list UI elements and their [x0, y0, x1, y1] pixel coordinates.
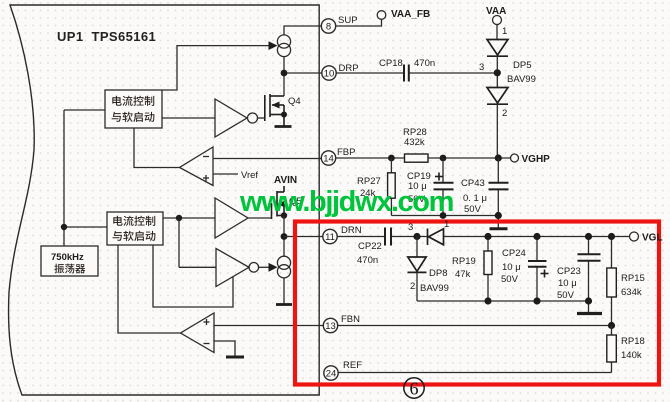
wire DRP node down to Q4 drain	[283, 73, 285, 96]
plus input mark cmp2	[204, 321, 210, 323]
svg-text:CP18: CP18	[379, 58, 403, 69]
svg-text:DP5: DP5	[513, 60, 531, 71]
wire bus to box2	[64, 226, 107, 228]
wire I2 bottom to ground	[283, 278, 285, 304]
svg-text:SUP: SUP	[338, 15, 358, 26]
label 电流控制 (lower)	[113, 216, 122, 226]
svg-text:0. 1 μ: 0. 1 μ	[463, 193, 487, 204]
resistor RP27	[388, 173, 396, 198]
node junction DRP internal	[281, 70, 288, 77]
error amp U_ea1	[180, 147, 214, 186]
svg-text:47k: 47k	[455, 269, 471, 280]
label 电流控制 (upper)	[112, 96, 121, 106]
wire FBN rail	[338, 325, 612, 327]
node junction RP28/CP19	[440, 155, 447, 162]
wire FBP bottom rail	[391, 215, 498, 217]
svg-text:470n: 470n	[414, 58, 435, 69]
svg-text:REF: REF	[343, 360, 362, 371]
svg-text:AVIN: AVIN	[274, 175, 297, 186]
svg-text:DRN: DRN	[341, 225, 362, 236]
ground at cmp2 minus	[226, 356, 244, 359]
wire RP19 top	[487, 237, 489, 252]
svg-text:10 μ: 10 μ	[558, 278, 577, 289]
svg-text:CP24: CP24	[502, 248, 526, 259]
ground at Q4 source	[275, 125, 292, 128]
wire CP24 top	[536, 237, 538, 262]
comparator U_cmp2	[181, 313, 215, 353]
svg-text:10: 10	[324, 69, 335, 80]
circled 6 marker	[404, 378, 424, 399]
plus input mark ea1	[203, 177, 209, 179]
svg-text:432k: 432k	[404, 137, 425, 148]
svg-text:VGHP: VGHP	[522, 154, 551, 165]
wire DRN bottom rail	[417, 300, 589, 302]
svg-text:Q4: Q4	[288, 96, 301, 107]
svg-text:CP22: CP22	[358, 241, 382, 252]
wire ea1 plus to Vref	[213, 173, 238, 175]
svg-text:CP43: CP43	[461, 178, 485, 189]
node junction RP15 top	[608, 233, 615, 240]
wire SUP to VAA_FB	[336, 19, 382, 26]
wire ground stub CP23	[588, 301, 590, 312]
node junction FBN/RP15/RP18	[608, 322, 615, 329]
wire CP43 top	[497, 158, 499, 182]
node junction CP23 bottom	[585, 297, 592, 304]
svg-text:8: 8	[326, 22, 331, 33]
node junction VGHP	[495, 154, 502, 161]
node junction CP19 bottom	[440, 212, 447, 219]
wire box1 to inverter1	[162, 117, 215, 119]
wire vertical bus to oscillator	[63, 110, 65, 246]
wire VAA to DP5	[496, 25, 498, 40]
svg-text:750kHz: 750kHz	[51, 252, 84, 263]
svg-text:14: 14	[323, 154, 334, 165]
wire I2 top to DRN node	[283, 237, 285, 257]
svg-text:6: 6	[410, 379, 419, 399]
resistor RP28	[405, 154, 429, 162]
wire CP43 bottom	[497, 190, 499, 216]
capacitor CP23	[578, 254, 601, 260]
pin 24 REF	[324, 366, 338, 380]
minus input mark cmp2	[204, 343, 210, 345]
svg-text:Vref: Vref	[241, 170, 258, 181]
node junction CP23 top	[585, 233, 592, 240]
block 750kHz 振荡器 oscillator	[41, 246, 98, 276]
wire inverter2 out to current source I2	[259, 266, 269, 268]
pin 14 FBP	[321, 151, 335, 165]
pin 8 SUP	[321, 19, 335, 33]
wire inverter1 out to Q4 gate	[258, 117, 265, 119]
svg-text:1: 1	[502, 26, 507, 37]
wire CP19 bottom	[442, 190, 444, 216]
svg-text:BAV99: BAV99	[420, 283, 449, 294]
svg-text:CP23: CP23	[557, 266, 581, 277]
wire DP5b to VGHP node	[496, 104, 498, 158]
node VGL terminal	[630, 232, 639, 241]
node junction DRN internal	[281, 233, 288, 240]
wire I1 top to pin 8	[284, 26, 322, 35]
inverter U_inv1	[215, 99, 247, 137]
svg-text:13: 13	[325, 321, 336, 332]
node Q4 source junction	[281, 112, 287, 118]
arrowhead into current source I2	[269, 263, 278, 272]
ground below CP43	[490, 227, 508, 230]
node junction CP43 bottom	[495, 212, 502, 219]
node VGHP terminal	[511, 154, 519, 162]
diode DP5b	[487, 88, 508, 105]
svg-text:RP18: RP18	[621, 336, 645, 347]
diode DP8a horizontal	[428, 229, 444, 246]
wire RP18 bottom	[611, 362, 613, 373]
svg-text:RP15: RP15	[621, 273, 645, 284]
node junction RP19 bottom	[484, 297, 491, 304]
svg-text:VGL: VGL	[642, 233, 663, 244]
current source I2	[277, 256, 290, 269]
node Q5 source junction	[281, 212, 287, 218]
capacitor CP18	[404, 65, 409, 82]
wire CP18 to DP5 node	[409, 72, 497, 74]
minus input mark ea1	[203, 156, 209, 158]
wire CP19 top	[442, 158, 444, 182]
wire DRN to CP22	[337, 236, 385, 238]
svg-text:50V: 50V	[557, 290, 575, 301]
wire CP23 bottom	[588, 261, 590, 301]
wire Q5 source to DRN node	[283, 216, 285, 237]
wire RP15 top	[611, 237, 613, 269]
plus mark CP19	[435, 173, 443, 181]
svg-text:634k: 634k	[621, 287, 642, 298]
current source I1	[277, 35, 290, 48]
node junction CP24 bottom	[533, 297, 540, 304]
node junction bus/box2	[61, 224, 67, 230]
wire I1 bottom to DRP node	[283, 57, 285, 74]
plus mark CP24	[541, 270, 549, 278]
wire CP24 bottom	[536, 267, 538, 301]
wire DRP to CP18	[336, 72, 404, 74]
capacitor CP24	[528, 261, 547, 267]
inverter U_inv2	[216, 249, 249, 287]
capacitor CP43	[489, 183, 509, 190]
svg-text:470n: 470n	[357, 255, 378, 266]
wire DRN node to pin 11	[284, 236, 323, 238]
ground below DRN rail	[577, 312, 602, 315]
wire DP8b top	[416, 237, 418, 258]
label 与软启动 (upper)	[112, 112, 121, 122]
svg-text:10 μ: 10 μ	[502, 262, 521, 273]
wire REF rail	[338, 372, 611, 374]
svg-text:FBP: FBP	[337, 147, 355, 158]
svg-text:UP1 TPS65161: UP1 TPS65161	[57, 29, 156, 44]
wire CP22 to node 3	[391, 236, 427, 238]
svg-text:140k: 140k	[621, 350, 642, 361]
red highlight box	[295, 222, 659, 385]
node junction DP8 pin3	[413, 233, 420, 240]
node VAA_FB terminal	[377, 11, 386, 20]
pin 10 DRP	[322, 66, 336, 80]
svg-text:www.bjjdwx.com: www.bjjdwx.com	[239, 186, 453, 218]
svg-text:2: 2	[410, 281, 415, 292]
wire RP18 top	[611, 326, 613, 336]
svg-text:24: 24	[326, 369, 337, 380]
svg-text:DP8: DP8	[429, 268, 447, 279]
transistor Q4	[264, 95, 266, 121]
svg-text:3: 3	[479, 62, 484, 73]
wire inverter2 input vertical	[178, 218, 180, 267]
svg-text:BAV99: BAV99	[507, 74, 536, 85]
svg-text:2: 2	[502, 108, 507, 119]
label 与软启动 (lower)	[113, 231, 122, 241]
svg-text:50V: 50V	[501, 274, 519, 285]
pin 13 FBN	[323, 318, 337, 332]
svg-text:3: 3	[408, 222, 413, 233]
node junction FBP/RP27	[388, 155, 395, 162]
transistor Q5	[283, 186, 285, 192]
label 振荡器	[54, 264, 64, 274]
wire ea1 minus to pin 14	[213, 158, 322, 160]
capacitor CP19	[434, 183, 454, 190]
diode DP8b vertical	[408, 257, 427, 272]
arrowhead into current source I1	[269, 41, 278, 50]
capacitor CP22	[385, 228, 391, 246]
arrow of Q4 body diode	[272, 102, 280, 109]
wire buffer out to Q5 gate	[248, 217, 272, 219]
ground below I2	[276, 303, 292, 306]
wire box2 to buffer	[163, 217, 215, 219]
svg-text:RP19: RP19	[452, 256, 476, 267]
buffer U_buf	[215, 198, 248, 238]
wire ground stub CP43	[497, 216, 499, 229]
wire RP15 bottom	[611, 297, 613, 326]
resistor RP15	[607, 268, 617, 297]
node junction RP19 top	[484, 233, 491, 240]
node junction CP24 top	[533, 233, 540, 240]
wire cmp2 output to box2	[118, 245, 181, 333]
resistor RP19	[484, 251, 492, 275]
wire CP23 top	[588, 237, 590, 255]
node junction box2/buffer	[176, 215, 182, 221]
svg-text:1: 1	[444, 219, 449, 230]
wire DP8a to VGL rail	[444, 236, 630, 238]
op-amp U_IC chip outline UP1 TPS65161	[9, 5, 320, 395]
resistor RP18	[607, 335, 617, 362]
wire current source ctrl top	[162, 46, 269, 90]
wire RP27 bottom	[390, 198, 392, 215]
svg-text:FBN: FBN	[341, 314, 360, 325]
wire cmp2 plus to pin 13	[214, 325, 324, 327]
wire RP27 top	[390, 158, 392, 173]
block 电流控制与软启动 (upper)	[105, 90, 162, 128]
svg-text:50V: 50V	[464, 204, 482, 215]
wire DRP node to pin 10	[284, 72, 322, 74]
wire DP5a to node 3	[496, 56, 498, 87]
pin 11 DRN	[323, 229, 337, 243]
wire DP8b bottom	[416, 272, 418, 301]
block 电流控制与软启动 (lower)	[107, 212, 163, 245]
svg-text:VAA_FB: VAA_FB	[391, 9, 430, 20]
node VAA terminal	[493, 16, 502, 25]
arrow of Q5 body diode	[278, 201, 285, 207]
svg-text:VAA: VAA	[486, 6, 506, 17]
wire feedback inverter2 to box2	[153, 245, 233, 307]
wire cmp2 minus to ground	[214, 341, 235, 356]
node junction DP5 pin3	[494, 69, 501, 76]
diode DP5a	[487, 40, 508, 57]
svg-text:11: 11	[325, 232, 335, 243]
wire FBP rail	[336, 157, 511, 159]
wire ea1 output to box1	[134, 128, 180, 168]
wire box1 left to vertical bus	[64, 109, 105, 111]
wire RP19 bottom	[487, 275, 489, 302]
